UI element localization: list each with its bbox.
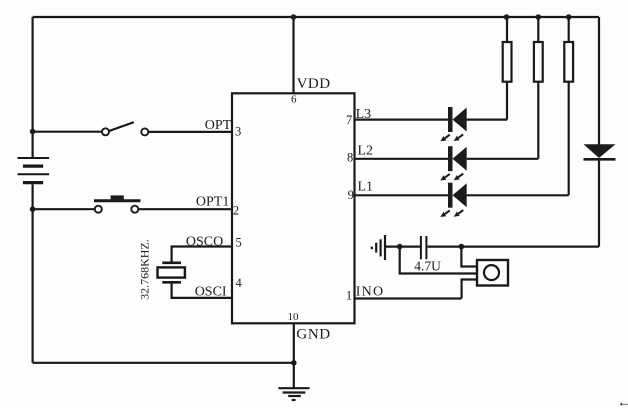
svg-text:4: 4 (236, 276, 243, 290)
svg-text:VDD: VDD (297, 76, 331, 92)
svg-text:6: 6 (291, 93, 297, 105)
resistor R1 (503, 14, 512, 119)
wire: cap right segment (428, 246, 600, 248)
label GND (296, 326, 330, 342)
pin number 2 (233, 203, 239, 217)
wire: pin 7 L3 to LED1 (355, 118, 449, 120)
svg-text:L3: L3 (356, 107, 372, 122)
wire: switch to pin 3 (OPT) (148, 131, 232, 133)
node: VDD on top rail (291, 14, 297, 20)
svg-text:OSCI: OSCI (195, 285, 227, 300)
wire: cap right junction down to mic terminal A (461, 247, 477, 267)
cursor artifact arrow (617, 396, 628, 408)
pin number 7 (346, 113, 352, 127)
node: GND junction on bottom rail (291, 360, 297, 366)
wire: cap left junction down to mic terminal B (400, 247, 477, 274)
node: junction battery/push-button (30, 206, 36, 212)
label VDD (297, 76, 331, 92)
svg-text:INO: INO (356, 285, 384, 300)
wire: bottom rail (33, 362, 294, 364)
svg-text:8: 8 (347, 151, 353, 165)
battery B1 (18, 158, 50, 183)
label OSCI (195, 285, 227, 300)
svg-text:L2: L2 (358, 144, 374, 159)
pin number 10 (288, 311, 300, 323)
wire: right rail upper (top rail to diode) (598, 17, 600, 145)
pin number 4 (236, 276, 243, 290)
wire: pin 10 GND to bottom rail (293, 323, 295, 363)
node: junction battery/switch (30, 129, 36, 135)
svg-text:1: 1 (346, 289, 352, 303)
wire: top supply rail (33, 16, 599, 18)
svg-text:OPT1: OPT1 (196, 194, 229, 209)
svg-text:9: 9 (348, 188, 354, 202)
wire: VDD pin 6 to top rail (292, 17, 294, 93)
value label 32.768KHZ (rotated) (138, 239, 152, 300)
svg-text:3: 3 (235, 125, 241, 139)
ground (left-facing, at capacitor) (372, 235, 385, 260)
svg-text:←: ← (617, 396, 628, 408)
label OSCO (186, 234, 223, 249)
svg-text:GND: GND (296, 326, 330, 342)
svg-text:7: 7 (346, 113, 352, 127)
wire: mic terminal C down to INO line (462, 280, 477, 299)
IC U1 (232, 93, 355, 323)
value label 4.7U (414, 258, 441, 273)
pin number 3 (235, 125, 241, 139)
switch S1 (33, 122, 149, 135)
wire: GND junction to ground symbol (293, 363, 295, 388)
pin number 5 (236, 236, 242, 250)
svg-text:OPT: OPT (205, 118, 232, 133)
wire: LED1 to R1 (467, 118, 507, 120)
pin number 8 (347, 151, 353, 165)
label OPT (205, 118, 232, 133)
pin number 9 (348, 188, 354, 202)
resistor R3 (564, 14, 573, 195)
wire: push button to pin 2 (OPT1) (138, 208, 232, 210)
svg-text:5: 5 (236, 236, 242, 250)
LED LED1 (440, 107, 466, 141)
resistor R2 (534, 14, 543, 159)
wire: pin 8 L2 to LED2 (355, 158, 449, 160)
label INO (356, 285, 384, 300)
svg-text:4.7U: 4.7U (414, 258, 441, 273)
svg-text:OSCO: OSCO (186, 234, 223, 249)
wire: left rail upper (top rail to battery +) (31, 17, 33, 157)
wire: cap left segment to ground (385, 246, 421, 248)
push button S2 (33, 195, 141, 212)
diode D1 (584, 144, 616, 159)
wire: right rail lower (diode to cap wire) (598, 161, 600, 247)
LED LED3 (440, 183, 466, 217)
label L3 (356, 107, 372, 122)
crystal Y1 32.768KHZ (158, 263, 185, 283)
wire: pin 1 INO line (355, 297, 462, 299)
microphone MIC1 (477, 260, 508, 286)
label OPT1 (196, 194, 229, 209)
svg-text:32.768KHZ.: 32.768KHZ. (138, 239, 152, 300)
wire: pin 9 L1 to LED3 (355, 194, 449, 196)
svg-text:2: 2 (233, 203, 239, 217)
capacitor C1 (421, 236, 427, 259)
svg-text:10: 10 (288, 311, 300, 323)
ground (bottom) (278, 388, 309, 400)
wire: crystal to pin 4 OSCI (172, 282, 232, 298)
node: cap right junction (459, 244, 465, 250)
pin number 1 (346, 289, 352, 303)
LED LED2 (440, 146, 466, 180)
wire: LED3 to R3 (467, 194, 569, 196)
wire: pin 5 OSCO to crystal (172, 247, 232, 263)
svg-text:L1: L1 (358, 180, 374, 195)
pin number 6 (291, 93, 297, 105)
label L1 (358, 180, 374, 195)
label L2 (358, 144, 374, 159)
wire: LED2 to R2 (467, 158, 539, 160)
wire: left rail lower (battery - to bottom rail) (31, 184, 33, 363)
node: cap left junction (397, 244, 403, 250)
